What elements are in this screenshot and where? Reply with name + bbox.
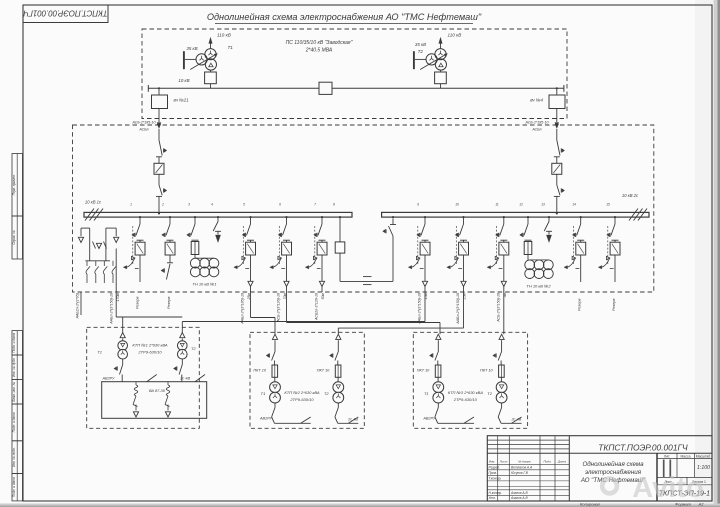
svg-text:АСБ-2*185-10: АСБ-2*185-10 (525, 121, 549, 125)
svg-text:4: 4 (211, 203, 213, 207)
svg-text:Лист: Лист (499, 460, 508, 464)
svg-text:Копировал: Копировал (580, 501, 601, 506)
svg-text:вч №21: вч №21 (174, 98, 190, 103)
svg-text:2ТР9-630/10: 2ТР9-630/10 (453, 397, 478, 402)
svg-text:Разраб.: Разраб. (489, 465, 501, 469)
svg-text:Лит.: Лит. (664, 454, 670, 458)
svg-text:ААБл-2*(3*185)-10: ААБл-2*(3*185)-10 (241, 293, 245, 325)
svg-text:2с 4В: 2с 4В (510, 418, 521, 422)
svg-text:№ докум.: № докум. (518, 460, 531, 464)
svg-text:АСБ-2*(3*150)-10: АСБ-2*(3*150)-10 (496, 293, 500, 323)
svg-text:10 кВ 1с: 10 кВ 1с (85, 200, 102, 205)
svg-text:6: 6 (279, 203, 281, 207)
svg-text:КТП №2 2*630 кВА: КТП №2 2*630 кВА (284, 390, 319, 395)
svg-text:50м: 50м (321, 292, 325, 299)
svg-text:Справ. №: Справ. № (12, 230, 16, 245)
svg-text:Резерв: Резерв (612, 298, 616, 311)
svg-text:25м: 25м (463, 292, 467, 300)
svg-text:3: 3 (188, 203, 190, 207)
svg-text:АВ2РУ: АВ2РУ (102, 377, 116, 381)
svg-text:ТН 10 кВ №1: ТН 10 кВ №1 (192, 282, 216, 287)
svg-text:12: 12 (519, 203, 523, 207)
svg-text:Пров.: Пров. (489, 471, 498, 475)
svg-text:ТКПСТ.ПОЭР.00.001ГЧ: ТКПСТ.ПОЭР.00.001ГЧ (23, 9, 108, 18)
svg-text:Резерв: Резерв (136, 296, 140, 309)
svg-text:110 кВ: 110 кВ (448, 33, 462, 38)
svg-text:35 кВ: 35 кВ (415, 42, 426, 47)
svg-text:11: 11 (495, 203, 499, 207)
svg-text:Однолинейная схема: Однолинейная схема (582, 461, 644, 468)
svg-text:2ТР9-630/10: 2ТР9-630/10 (289, 397, 314, 402)
svg-text:Утв.: Утв. (489, 496, 496, 500)
svg-text:Дата: Дата (557, 460, 566, 464)
svg-text:ААБл-2*(3*150)-10: ААБл-2*(3*150)-10 (110, 293, 114, 325)
svg-text:Азалов А.В: Азалов А.В (510, 491, 528, 495)
svg-text:Подп. и дата: Подп. и дата (12, 477, 16, 497)
svg-text:АСБ-2*(3*120)-10: АСБ-2*(3*120)-10 (277, 293, 281, 323)
svg-text:15: 15 (606, 203, 610, 207)
svg-text:ПКТ 10: ПКТ 10 (317, 369, 330, 373)
svg-text:Взам. инв. №: Взам. инв. № (12, 381, 16, 401)
svg-text:АВ2РУ: АВ2РУ (259, 417, 273, 421)
svg-text:Т2: Т2 (324, 391, 329, 396)
svg-text:7: 7 (314, 203, 316, 207)
svg-text:Подп. и дата: Подп. и дата (12, 412, 16, 432)
svg-text:10 кВ 2с: 10 кВ 2с (622, 193, 639, 198)
svg-text:Инв. № дубл.: Инв. № дубл. (12, 357, 16, 377)
svg-text:9: 9 (417, 203, 419, 207)
svg-text:5: 5 (243, 203, 245, 207)
svg-text:10 кВ: 10 кВ (178, 78, 189, 83)
svg-text:КТП №3 2*630 кВА: КТП №3 2*630 кВА (448, 390, 483, 395)
svg-text:ТКПСТ.ПОЭР.00.001ГЧ: ТКПСТ.ПОЭР.00.001ГЧ (598, 443, 688, 453)
svg-text:АСБл: АСБл (138, 128, 148, 132)
svg-text:8: 8 (333, 203, 335, 207)
svg-text:14: 14 (572, 203, 576, 207)
svg-text:Азалов А.В: Азалов А.В (510, 496, 528, 500)
svg-text:Т2: Т2 (487, 391, 492, 396)
svg-text:2с 4В: 2с 4В (347, 418, 358, 422)
svg-text:ТН 10 кВ №2: ТН 10 кВ №2 (526, 284, 551, 289)
svg-text:70м: 70м (283, 292, 287, 299)
svg-text:Avito: Avito (632, 472, 703, 504)
svg-text:Инв. № подл.: Инв. № подл. (12, 447, 16, 467)
svg-text:АВ2РУ: АВ2РУ (422, 417, 436, 421)
svg-text:Т1: Т1 (228, 45, 234, 50)
svg-text:КТП №1 2*630 кВА: КТП №1 2*630 кВА (132, 343, 167, 348)
svg-text:2с 4В: 2с 4В (179, 377, 190, 381)
svg-text:ААБл-2*(3*150)-10: ААБл-2*(3*150)-10 (456, 293, 460, 325)
svg-text:Т1: Т1 (424, 391, 429, 396)
svg-text:2: 2 (161, 203, 164, 207)
svg-text:13: 13 (541, 203, 545, 207)
svg-text:Масса: Масса (680, 454, 690, 458)
svg-text:Т1: Т1 (261, 391, 266, 396)
svg-text:Изм.: Изм. (489, 460, 496, 464)
svg-text:ПКТ 10: ПКТ 10 (480, 369, 493, 373)
svg-text:5м: 5м (503, 292, 507, 297)
svg-text:Т.контр.: Т.контр. (489, 476, 502, 480)
svg-text:АСБ2л-3*120-10: АСБ2л-3*120-10 (315, 293, 319, 321)
svg-text:Юсупов Г.В: Юсупов Г.В (511, 471, 529, 475)
svg-text:1:100: 1:100 (697, 465, 710, 471)
svg-text:Ветласов А.А: Ветласов А.А (511, 465, 532, 469)
svg-text:Резерв: Резерв (578, 298, 582, 311)
svg-text:10: 10 (455, 203, 459, 207)
svg-text:ПС 110/35/10 кВ "Заводская": ПС 110/35/10 кВ "Заводская" (286, 40, 353, 46)
svg-text:Т2: Т2 (191, 346, 196, 351)
svg-text:АСБ-2*185-10: АСБ-2*185-10 (132, 121, 156, 125)
svg-text:1: 1 (130, 203, 132, 207)
svg-text:вч №4: вч №4 (530, 98, 543, 103)
svg-text:Масштаб: Масштаб (696, 454, 711, 458)
svg-text:АСБл: АСБл (531, 128, 541, 132)
svg-text:Подп. и дата: Подп. и дата (12, 333, 16, 353)
svg-text:Н.контр.: Н.контр. (489, 491, 503, 495)
svg-text:Подп.: Подп. (544, 460, 552, 464)
svg-text:170м: 170м (116, 292, 120, 301)
svg-text:ААБ2л-3*(3*95): ААБ2л-3*(3*95) (76, 293, 80, 320)
svg-text:Т2: Т2 (418, 49, 424, 54)
svg-text:25м: 25м (247, 292, 251, 300)
svg-text:ПКТ 10: ПКТ 10 (253, 369, 266, 373)
svg-text:2*40.5 МВА: 2*40.5 МВА (305, 48, 333, 54)
svg-text:2ТР9-630/10: 2ТР9-630/10 (137, 350, 162, 355)
svg-text:Т1: Т1 (97, 349, 102, 354)
svg-text:15м: 15м (424, 292, 428, 299)
svg-text:ААБл-2*(3*150)-10: ААБл-2*(3*150)-10 (418, 293, 422, 325)
svg-text:Однолинейная схема электроснаб: Однолинейная схема электроснабжения АО "… (207, 12, 482, 22)
svg-text:Перв. примен.: Перв. примен. (12, 174, 16, 195)
svg-text:Резерв: Резерв (167, 296, 171, 309)
svg-text:ВА 87-39: ВА 87-39 (149, 389, 166, 393)
svg-text:35 кВ: 35 кВ (186, 46, 197, 51)
svg-text:110 кВ: 110 кВ (217, 33, 231, 38)
svg-text:ПКТ 10: ПКТ 10 (417, 369, 430, 373)
